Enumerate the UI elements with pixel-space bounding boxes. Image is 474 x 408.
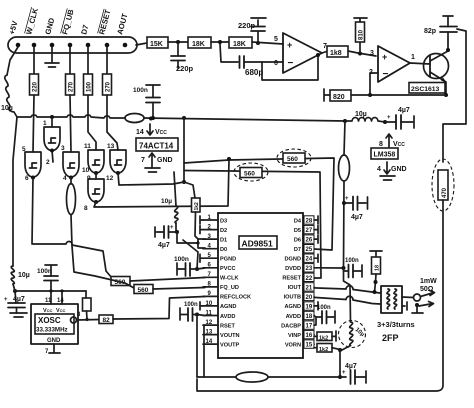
svg-text:1mW: 1mW: [420, 278, 437, 285]
svg-text:7: 7: [141, 157, 145, 164]
svg-text:REFCLOCK: REFCLOCK: [220, 295, 251, 301]
resistor R18 82: [99, 315, 113, 324]
junction DVdd bypass node: [342, 201, 346, 205]
resistor R9 810: [356, 22, 365, 42]
capacitor C11 4u7 electrolytic at left rail: [4, 296, 25, 313]
pin 11 AVDD of U4: [203, 310, 235, 320]
wire R2 to inverter C input: [70, 95, 71, 152]
ground tick below output: [412, 305, 423, 313]
output arrow 1: [421, 291, 435, 297]
inductor L4 10u on left rail: [11, 266, 30, 303]
svg-text:13: 13: [206, 329, 213, 335]
svg-text:+: +: [387, 115, 391, 121]
svg-text:100n: 100n: [37, 268, 52, 275]
svg-text:28: 28: [306, 219, 313, 225]
svg-text:GND: GND: [157, 157, 173, 164]
resistor R20 1k2 at pin 15 VORN: [314, 344, 340, 354]
pin 7 GND annotation of U1: [141, 153, 173, 168]
op-amp inverter U1D (gate 11/10): [88, 150, 104, 173]
wire GND pin to ground: [51, 47, 53, 62]
wire A horizontal RESET/D7 top run: [184, 158, 334, 250]
pin 1 D3 of U4: [203, 215, 227, 225]
capacitor C5 680p: [240, 56, 264, 77]
svg-text:VORN: VORN: [285, 342, 301, 348]
op-amp U3 LM358 label box: [371, 148, 398, 159]
capacitor C8 4u7 at data pin node: [155, 225, 177, 249]
svg-text:+: +: [4, 297, 8, 303]
resistor R13 1k2: [192, 198, 201, 212]
svg-text:1: 1: [43, 120, 47, 127]
wire XOSC Vcc feed: [15, 290, 86, 292]
svg-text:23: 23: [306, 266, 313, 272]
junction on analog rail: [338, 375, 342, 379]
junction filter node 1: [176, 40, 180, 44]
pin 25 D7 of U4: [294, 245, 314, 254]
svg-text:820: 820: [333, 94, 345, 101]
svg-text:13: 13: [107, 143, 115, 150]
svg-text:3+3/3turns: 3+3/3turns: [377, 320, 415, 329]
svg-text:15: 15: [306, 343, 313, 349]
svg-text:10µ: 10µ: [18, 272, 30, 279]
junction XOSC Vcc pins: [49, 289, 52, 292]
svg-text:10µ: 10µ: [161, 198, 172, 205]
ground at U3 pin4: [380, 176, 395, 180]
capacitor C10 100n at XOSC supply: [37, 265, 58, 291]
junction node at 184,183: [182, 180, 186, 184]
op-amp inverter U1C (gate 3/4): [63, 152, 79, 177]
svg-text:27: 27: [306, 228, 313, 234]
svg-text:25: 25: [306, 247, 313, 253]
svg-text:D6: D6: [294, 237, 301, 243]
wire node to R13: [184, 182, 195, 198]
junction DVdd node: [342, 266, 346, 270]
svg-text:W-CLK: W-CLK: [220, 276, 239, 282]
pin 26 D6 of U4: [294, 235, 314, 244]
pin 14 Vcc annotation of U1: [136, 124, 167, 136]
wire U2A output to R8: [322, 51, 328, 53]
wire R1 to inverter B input: [33, 95, 34, 152]
svg-text:1k2: 1k2: [194, 202, 200, 211]
resistor R19 1k2 at pin 16 VINP: [314, 331, 336, 342]
capacitor C9 100n at PVcc: [174, 256, 197, 276]
svg-text:D5: D5: [294, 228, 301, 234]
svg-text:D2: D2: [220, 228, 227, 234]
svg-text:17: 17: [306, 324, 313, 330]
ferrite bead FB2 to DVdd: [339, 121, 350, 268]
wire D7 pin to R3: [87, 47, 89, 74]
svg-text:100n: 100n: [184, 302, 198, 308]
svg-text:−: −: [288, 58, 294, 69]
svg-text:24: 24: [306, 257, 313, 263]
wire C6 to right side rail: [443, 29, 466, 162]
wire W_CLK pin to R1: [33, 47, 35, 74]
svg-text:AVDD: AVDD: [286, 314, 301, 320]
svg-text:100: 100: [87, 81, 93, 92]
svg-text:50Ω: 50Ω: [420, 286, 434, 293]
analog rail wire right part: [268, 376, 346, 378]
svg-text:4µ7: 4µ7: [13, 296, 25, 303]
op-amp inverter U1A (74ACT14 gate 1/2): [44, 127, 60, 151]
svg-text:1k2: 1k2: [319, 347, 328, 353]
pin 10 AGND of U4: [203, 301, 236, 310]
svg-text:74ACT14: 74ACT14: [139, 142, 174, 151]
svg-text:33.333MHz: 33.333MHz: [36, 327, 68, 334]
resistor R11 470 in dashed oval: [432, 159, 454, 211]
wire pin 21 IOUT to transformer: [314, 286, 380, 293]
wire Vcc bus right section: [144, 118, 345, 121]
svg-text:8: 8: [84, 205, 88, 212]
svg-text:12: 12: [106, 175, 114, 182]
svg-text:AGND: AGND: [220, 304, 236, 310]
capacitor C3 220p at U2A input: [238, 18, 266, 43]
wire VORN node down to analog rail: [339, 350, 341, 377]
pin 2 D2 of U4: [203, 224, 227, 234]
svg-text:VOUTP: VOUTP: [220, 342, 240, 348]
wire R6 to R7: [211, 41, 229, 43]
svg-text:2SC1613: 2SC1613: [411, 86, 440, 93]
resistor R1 220: [30, 74, 39, 95]
ground connector GND: [45, 63, 59, 67]
ground tick at T1 secondary bottom: [402, 302, 407, 310]
wire U2B output to Q1 base: [410, 63, 430, 64]
svg-text:RESET: RESET: [282, 276, 301, 282]
svg-text:810: 810: [359, 29, 365, 40]
svg-text:+: +: [382, 52, 387, 62]
svg-text:15K: 15K: [150, 41, 163, 48]
wire R18 to IC pin 9 REFCLOCK: [113, 297, 205, 320]
svg-text:D4: D4: [294, 218, 302, 224]
resistor R5 15K: [147, 37, 168, 48]
svg-text:FQ_UD: FQ_UD: [220, 285, 239, 291]
svg-text:DACBP: DACBP: [281, 323, 301, 329]
svg-text:11: 11: [206, 310, 213, 316]
svg-text:22: 22: [306, 276, 313, 282]
wire C5 to U2A -input and feedback rail: [262, 55, 318, 80]
pin 28 D4 of U4: [294, 216, 314, 225]
resistor R2 270: [66, 74, 75, 95]
svg-text:3: 3: [61, 145, 65, 152]
svg-text:100n: 100n: [345, 258, 359, 264]
svg-text:1k2: 1k2: [319, 336, 328, 342]
svg-text:10: 10: [206, 301, 213, 307]
junction feedback at pin2: [368, 93, 372, 97]
junction XOSC output node: [85, 318, 88, 321]
capacitor C4u7 at LM358 supply: [385, 107, 414, 129]
wire pin 11 AVdd to bypass node: [197, 315, 205, 316]
wire FQ_UB pin to R2: [69, 47, 71, 74]
value label 2SC1613: [409, 83, 445, 94]
svg-text:XOSC: XOSC: [38, 316, 61, 325]
wire PVcc branch up to data node: [183, 240, 198, 269]
ferrite bead FB4 on analog rail: [236, 372, 268, 382]
wire R15 to IC pin 7: [130, 278, 205, 282]
op-amp inverter U1B (gate 5/6): [25, 152, 41, 177]
wire R16 to IC pin 8: [153, 288, 205, 290]
wire bus to inverter A input: [51, 117, 53, 127]
pin 7 W-CLK of U4: [203, 272, 239, 282]
op-amp U2A: [283, 33, 322, 73]
svg-text:GND: GND: [47, 338, 61, 344]
svg-text:GND: GND: [391, 166, 407, 173]
svg-text:5: 5: [274, 36, 278, 43]
svg-text:4: 4: [377, 166, 381, 173]
op-amp inverter U1F (gate 9/8): [88, 179, 104, 202]
wire R10 to feedback node: [351, 94, 370, 96]
svg-text:3: 3: [370, 50, 374, 57]
pin 20 IOUTB of U4: [284, 292, 314, 301]
svg-text:680p: 680p: [245, 68, 263, 77]
junction LM358 Vcc node: [383, 120, 387, 124]
svg-text:LM358: LM358: [374, 152, 396, 159]
svg-text:4µ7: 4µ7: [345, 363, 357, 370]
wire gate B output to R15 (W_CLK net): [32, 177, 112, 278]
inductor L5 10u in dashed circle: [339, 321, 366, 348]
svg-text:4µ7: 4µ7: [351, 214, 363, 221]
svg-text:220: 220: [33, 81, 39, 92]
ground at left rail: [10, 313, 27, 317]
svg-text:220p: 220p: [176, 64, 194, 73]
resistor R14 560 in dashed oval on wire B: [234, 163, 268, 181]
svg-text:DVDD: DVDD: [285, 266, 301, 272]
svg-text:2FP: 2FP: [382, 333, 399, 343]
pin 6 PVCC of U4: [203, 263, 236, 273]
resistor R12 560 in dashed oval on wire A: [277, 149, 311, 167]
junction Vcc at x345: [343, 119, 347, 123]
wire R4 to inverter E input: [107, 95, 118, 150]
svg-text:270: 270: [69, 81, 75, 92]
analog rail wire: [197, 376, 236, 378]
svg-text:18K: 18K: [192, 41, 205, 48]
junction L3 bottom node: [175, 230, 179, 234]
wire Vcc bus left section with jumpovers: [17, 115, 125, 118]
capacitor C12 100n at DVdd: [344, 258, 363, 278]
wire XOSC out to R18: [77, 319, 100, 322]
wire R3 to inverter D input: [88, 95, 96, 150]
svg-text:IOUT: IOUT: [288, 285, 302, 291]
pin 21 IOUT of U4: [288, 283, 314, 292]
connector J1: [8, 37, 137, 53]
svg-text:10µ: 10µ: [1, 105, 13, 112]
svg-text:560: 560: [244, 171, 255, 178]
svg-text:1: 1: [411, 54, 415, 61]
connector output jack: [414, 294, 421, 301]
resistor R8 1k8: [327, 46, 348, 57]
pin 4 GND annotation of U3: [377, 162, 407, 174]
wire R13 to IC pin 2: [195, 212, 198, 239]
junction R21 bottom: [374, 280, 378, 284]
svg-text:PGND: PGND: [220, 257, 236, 263]
wire PVcc node to IC pin 6: [197, 268, 205, 269]
ferrite bead FB3 on FQ_UD net: [67, 178, 135, 289]
svg-text:IOUTB: IOUTB: [284, 295, 301, 301]
pin 12 RSET of U4: [203, 320, 236, 330]
svg-text:VCC: VCC: [393, 141, 405, 148]
resistor R16 560: [134, 285, 153, 295]
svg-text:+: +: [345, 196, 349, 202]
inductor L1 10u: [5, 75, 17, 117]
wire AOUT to R5: [136, 43, 147, 45]
pin 18 AVDD of U4: [286, 311, 314, 320]
svg-text:470: 470: [442, 187, 448, 198]
op-amp U1 74ACT14 label box: [136, 138, 178, 151]
pin 3 D1 of U4: [203, 234, 227, 244]
wire left +5V rail down: [13, 117, 17, 266]
IC U4 AD9851 name box: [239, 236, 277, 249]
svg-text:16: 16: [306, 333, 313, 339]
svg-text:560: 560: [138, 287, 149, 294]
svg-text:−: −: [383, 69, 389, 80]
wire gate F output to riser: [94, 160, 229, 207]
junction gate F riser on wire A: [227, 157, 231, 161]
capacitor C15 4u7 on analog rail: [342, 363, 366, 384]
svg-text:4µ7: 4µ7: [398, 107, 410, 114]
inductor L2 10u on Vcc to LM358: [345, 118, 385, 122]
wire feedback rail to U2B -input: [370, 73, 446, 95]
svg-text:12: 12: [206, 320, 213, 326]
svg-text:D7: D7: [294, 247, 301, 253]
junction AVdd node: [195, 313, 199, 317]
junction output ground: [415, 303, 419, 307]
capacitor C7 4u7 at DVdd: [344, 196, 368, 221]
svg-text:220p: 220p: [238, 21, 256, 30]
pin 19 AGND of U4: [285, 302, 314, 311]
svg-text:18: 18: [375, 265, 381, 271]
svg-text:D1: D1: [220, 237, 227, 243]
pin 9 REFCLOCK of U4: [203, 291, 251, 301]
svg-text:2: 2: [46, 159, 50, 166]
svg-text:D0: D0: [220, 247, 227, 253]
wire R7 to op-amp U2A +input: [252, 42, 283, 44]
wire R8 to U2B +input: [348, 51, 376, 56]
svg-text:5: 5: [22, 146, 26, 153]
wire B horizontal run to RESET pin: [184, 171, 321, 279]
svg-text:18K: 18K: [233, 41, 246, 48]
wire gate D output to gate F input: [95, 173, 97, 179]
pin 5 PGND of U4: [203, 253, 236, 263]
op-amp U3 LM358 power annotation Vcc pin 8: [379, 134, 405, 148]
wire node to R9: [359, 42, 361, 53]
pin 17 DACBP of U4: [281, 321, 314, 330]
svg-text:AGND: AGND: [285, 304, 301, 310]
resistor R15 560: [111, 277, 130, 287]
inductor L3 10u to data pins: [161, 172, 178, 232]
pin 15 VORN of U4: [285, 340, 314, 349]
junction at U2B +input: [358, 52, 362, 56]
svg-text:270: 270: [106, 81, 112, 92]
capacitor C13 100n at pin 17 DACBP: [314, 305, 335, 325]
capacitor C6 82p at collector: [424, 16, 457, 40]
junction at bracket: [196, 241, 199, 244]
ground at U1 pin7: [145, 168, 160, 172]
resistor R6 18K: [188, 37, 211, 48]
output arrow 2: [419, 302, 434, 307]
wire R11 down right edge to bottom rail: [197, 200, 443, 391]
IC U4 AD9851 body: [218, 213, 303, 358]
junction PVcc node: [195, 267, 199, 271]
svg-text:11: 11: [84, 143, 91, 150]
op-amp inverter U1E (gate 13/12): [110, 150, 126, 173]
svg-text:14: 14: [136, 129, 144, 136]
oscillator X1 XOSC box: [31, 304, 78, 344]
junction bus to gate A input: [50, 115, 54, 119]
svg-text:20: 20: [306, 295, 313, 301]
wire DVdd down to analog coil: [344, 268, 351, 322]
capacitor C14 100n at AVdd: [180, 302, 198, 321]
svg-text:VOUTN: VOUTN: [220, 333, 240, 339]
transformer T1 3+3/3 turns: [381, 286, 402, 313]
svg-text:AD9851: AD9851: [242, 239, 273, 249]
junction filter node 2: [218, 40, 222, 44]
svg-text:6: 6: [25, 175, 29, 182]
junction at U2A +input: [256, 41, 260, 45]
pin 23 DVDD of U4: [285, 264, 314, 273]
pin 24 DGND of U4: [285, 254, 314, 263]
svg-text:+: +: [287, 40, 292, 50]
wire stubs into XOSC: [51, 291, 62, 304]
pin 27 D5 of U4: [294, 225, 314, 234]
ground tick left of R10: [324, 89, 330, 101]
wire +5V pin down-left: [7, 47, 18, 75]
wire node to IC pins 3 and 4: [177, 232, 205, 248]
pin 16 VINP of U4: [288, 330, 314, 339]
resistor R3 100: [84, 74, 93, 95]
svg-text:1k8: 1k8: [330, 50, 342, 57]
svg-text:VINP: VINP: [288, 333, 301, 339]
wire R5 to R6: [168, 41, 188, 43]
svg-text:AVDD: AVDD: [220, 314, 235, 320]
wire T1 to output jack: [402, 296, 414, 299]
svg-text:VCC: VCC: [155, 129, 167, 136]
wire pin 20 IOUTB to transformer: [314, 296, 380, 304]
svg-text:10: 10: [82, 167, 90, 174]
pin 2 of U1A stub: [52, 151, 53, 163]
svg-text:14: 14: [206, 339, 213, 345]
svg-text:6: 6: [274, 60, 278, 67]
svg-text:26: 26: [306, 238, 313, 244]
svg-text:560: 560: [287, 156, 298, 163]
resistor R10 820: [330, 90, 351, 101]
svg-text:+: +: [170, 225, 174, 231]
svg-text:82: 82: [103, 317, 111, 324]
capacitor C2 220p to ground: [171, 42, 194, 73]
wire pin 23 DVdd to bead node: [314, 267, 344, 269]
pin 8 FQ_UD of U4: [203, 282, 239, 292]
wire RESET pin to R4: [106, 47, 108, 74]
svg-text:+: +: [342, 370, 346, 376]
resistor R7 18K: [229, 37, 252, 48]
ferrite bead FB1 on Vcc bus: [125, 114, 144, 123]
transistor Q1 2SC1613: [424, 40, 451, 95]
svg-text:4: 4: [63, 175, 67, 182]
svg-text:100n: 100n: [133, 87, 148, 94]
resistor R4 270: [103, 74, 112, 95]
pin 13 VOUTN of U4: [203, 329, 240, 339]
svg-text:82p: 82p: [424, 28, 436, 35]
svg-text:RSET: RSET: [220, 323, 236, 329]
junction Q1 emitter feedback node: [444, 93, 448, 97]
pin 14 VOUTP of U4: [203, 339, 240, 349]
ground tick above R9: [354, 18, 367, 22]
op-amp U2B: [378, 46, 410, 82]
capacitor C1 100n at 74ACT14: [133, 85, 160, 118]
resistor R17 pullup at XOSC out: [83, 291, 92, 319]
svg-text:100n: 100n: [317, 305, 331, 311]
wire gate E output diagonal to node: [118, 173, 184, 185]
svg-text:8: 8: [379, 141, 383, 148]
svg-text:PVCC: PVCC: [220, 266, 236, 272]
svg-text:D3: D3: [220, 218, 227, 224]
wire node2 down to C5: [220, 44, 238, 62]
